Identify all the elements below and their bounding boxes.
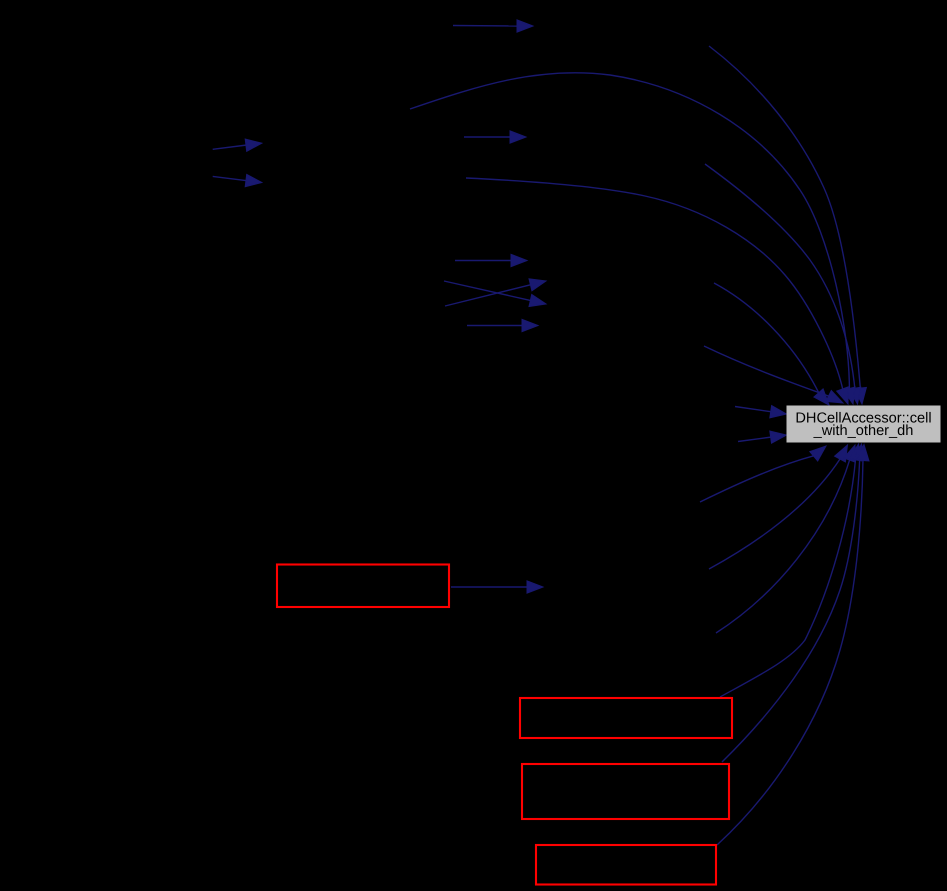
svg-text:_with_other_dh: _with_other_dh (813, 423, 914, 439)
edge arrow from red box 1 (451, 581, 543, 593)
curve edge D2 (705, 164, 861, 404)
curve edge C (466, 178, 848, 404)
curve edge A (709, 46, 866, 404)
edge arrow a6 (467, 319, 538, 331)
curve edge F (700, 446, 826, 502)
edge arrow a2 (213, 139, 262, 151)
edge arrow into node left L2 (738, 431, 787, 443)
curve edge D (714, 283, 829, 405)
edge arrow into node left L1 (735, 406, 787, 418)
red node box 4 (536, 845, 716, 885)
edge arrow a3 (213, 174, 262, 186)
node DHCellAccessor::cell_with_other_dh (787, 406, 941, 443)
edge arrow a4 (464, 131, 526, 143)
edge arrow x2 (445, 279, 546, 306)
curve edge J (722, 444, 866, 762)
red node box 2 (520, 698, 732, 738)
curve edge K (717, 445, 869, 846)
red node box 3 (522, 764, 729, 819)
curve edge G (709, 445, 848, 569)
edge arrow x1 (444, 281, 546, 307)
curve edge E (704, 346, 843, 403)
curve edge I (720, 444, 862, 697)
edge arrow a5 (455, 254, 527, 266)
edge arrow a1 (453, 20, 533, 32)
red node box 1 (277, 565, 449, 608)
curve edge B (410, 73, 855, 404)
curve edge H (716, 445, 855, 633)
